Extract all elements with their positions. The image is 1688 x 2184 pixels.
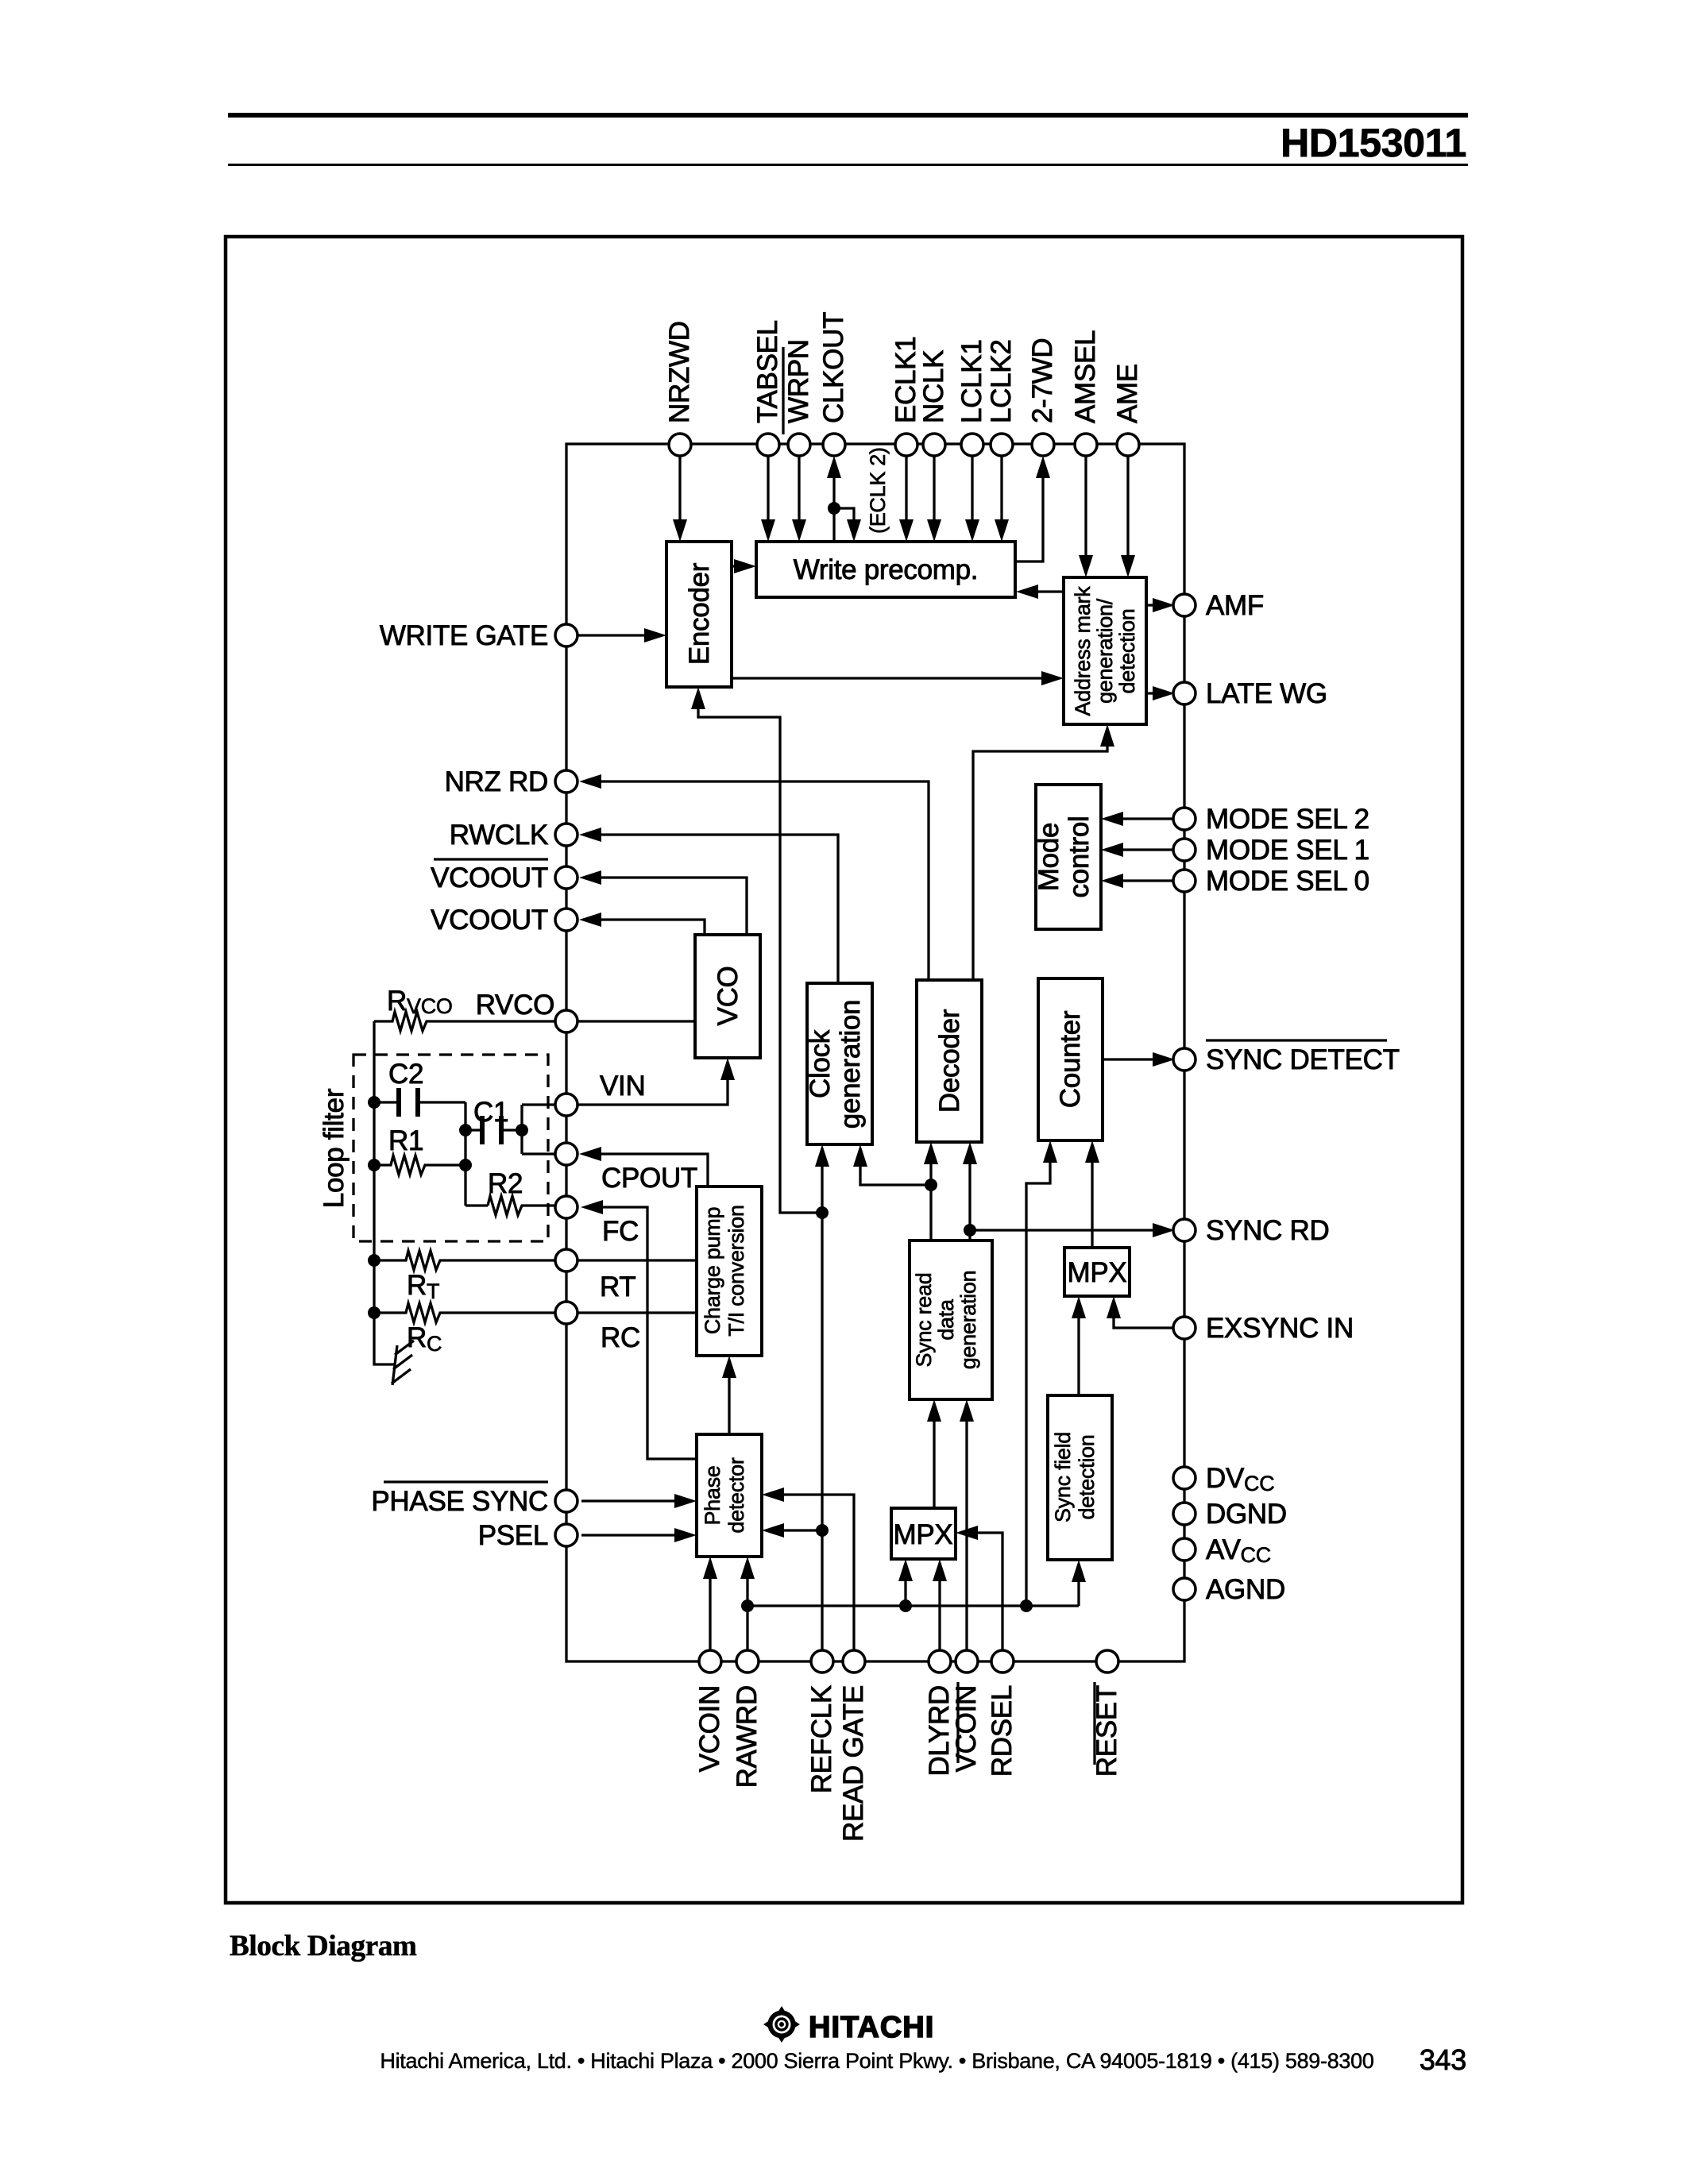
junction C2 left <box>368 1096 380 1109</box>
wire LCLK2 to Write precomp <box>995 445 1009 542</box>
label PHASE SYNC <box>371 1482 548 1517</box>
wire RAWRD to Phase detector <box>740 1557 755 1661</box>
svg-text:LCLK1: LCLK1 <box>956 339 987 423</box>
pin VCOIN-bar <box>956 1650 978 1673</box>
pin SYNC RD <box>1173 1219 1196 1241</box>
block Sync read data generation <box>910 1241 992 1399</box>
pin EXSYNC IN <box>1173 1317 1196 1339</box>
junction REFCLK/Encoder <box>816 1206 829 1219</box>
svg-text:PHASE SYNC: PHASE SYNC <box>371 1486 548 1517</box>
capacitor C2 <box>374 1088 465 1117</box>
wire PSEL to Phase detector <box>581 1528 697 1542</box>
pin NCLK <box>923 434 945 456</box>
pin VCOOUT-bar <box>555 866 577 889</box>
svg-text:CPOUT: CPOUT <box>601 1163 697 1194</box>
wire MPX upper to Counter <box>1085 1140 1099 1248</box>
wire VCO to VCOOUT-bar <box>579 870 747 935</box>
junction R1 left <box>368 1159 380 1171</box>
block MPX upper U1 <box>1064 1248 1130 1296</box>
pin REFCLK <box>811 1650 833 1673</box>
resistor RT <box>374 1251 556 1270</box>
wire Clock generation to RWCLK <box>579 828 838 983</box>
pin PSEL <box>555 1524 577 1546</box>
svg-text:ECLK1: ECLK1 <box>890 337 921 423</box>
wire Decoder to Address mark block <box>973 724 1114 980</box>
wire ECLK2 branch <box>834 508 861 542</box>
pin AVcc <box>1173 1538 1196 1561</box>
wire Address mark to AMF <box>1146 598 1175 612</box>
pin RESET <box>1096 1650 1118 1673</box>
svg-text:LATE WG: LATE WG <box>1206 678 1327 709</box>
pin AMSEL <box>1075 434 1097 456</box>
resistor Rvco <box>374 1012 556 1031</box>
svg-text:PSEL: PSEL <box>478 1520 548 1551</box>
Hitachi logo mark <box>763 2006 800 2043</box>
svg-text:HITACHI: HITACHI <box>809 2011 934 2044</box>
svg-text:WRITE GATE: WRITE GATE <box>380 620 548 651</box>
svg-text:DGND: DGND <box>1206 1499 1287 1530</box>
wire C1 right to VIN and CPOUT <box>520 1105 523 1154</box>
wire MODE SEL 1 to Mode control <box>1101 843 1173 857</box>
junction RT left <box>368 1254 380 1267</box>
block Phase detector <box>697 1434 762 1557</box>
wire REFCLK riser to Clock generation <box>815 1144 829 1661</box>
block MPX lower U2 <box>891 1508 956 1559</box>
wire VCO to VCOOUT <box>579 913 705 935</box>
svg-text:AMF: AMF <box>1206 590 1264 621</box>
pin READ GATE <box>843 1650 865 1673</box>
svg-text:RAWRD: RAWRD <box>732 1685 763 1788</box>
svg-text:RESET: RESET <box>1091 1685 1122 1777</box>
wire MPX lower to Sync read data generation <box>927 1399 941 1508</box>
pin CLKOUT <box>823 434 845 456</box>
wire NRZWD to Encoder <box>673 445 687 542</box>
block Sync field detection <box>1048 1395 1112 1560</box>
svg-text:R1: R1 <box>388 1125 423 1156</box>
wire RC to Charge pump <box>578 1311 697 1314</box>
svg-text:SYNC RD: SYNC RD <box>1206 1215 1329 1246</box>
wire LCLK1 to Write precomp <box>965 445 979 542</box>
wire CPOUT external stub <box>522 1152 556 1155</box>
wire DLYRD to MPX lower <box>933 1559 947 1661</box>
svg-text:generation/: generation/ <box>1093 598 1117 704</box>
junction C1 left <box>459 1124 472 1136</box>
block Charge pump T/I conversion <box>697 1187 762 1356</box>
svg-text:SYNC DETECT: SYNC DETECT <box>1206 1044 1400 1075</box>
svg-text:RVCO: RVCO <box>476 990 554 1021</box>
wire Charge pump to CPOUT <box>579 1147 708 1187</box>
block Clock generation <box>805 983 872 1144</box>
pin LCLK2 <box>991 434 1013 456</box>
svg-text:VCOOUT: VCOOUT <box>431 905 548 936</box>
svg-text:detection: detection <box>1075 1435 1099 1520</box>
wire Sync field detection to MPX upper <box>1072 1296 1086 1395</box>
svg-text:Counter: Counter <box>1055 1010 1086 1108</box>
svg-text:MODE SEL 2: MODE SEL 2 <box>1206 804 1369 835</box>
svg-text:CLKOUT: CLKOUT <box>818 312 849 423</box>
svg-text:Encoder: Encoder <box>684 562 715 665</box>
wire CLKOUT from Write precomp <box>827 456 841 542</box>
wire external ground rail <box>374 1021 395 1364</box>
wire NCLK to Write precomp <box>927 445 941 542</box>
svg-text:Block Diagram: Block Diagram <box>230 1930 417 1962</box>
wire RDSEL to MPX lower <box>956 1526 1002 1661</box>
wire FC to Phase detector <box>581 1200 697 1459</box>
wire VCOIN-bar to Sync read data generation <box>960 1399 974 1661</box>
svg-text:VCOIN: VCOIN <box>951 1685 982 1772</box>
svg-text:Clock: Clock <box>805 1029 836 1098</box>
wire MODE SEL 2 to Mode control <box>1101 812 1173 826</box>
pin RVCO <box>555 1010 577 1032</box>
header thin rule <box>228 164 1468 166</box>
pin AMF <box>1173 594 1196 616</box>
wire PHASE SYNC to Phase detector <box>581 1494 697 1508</box>
resistor RC <box>374 1303 556 1322</box>
svg-text:generation: generation <box>956 1271 980 1370</box>
pin LATE WG <box>1173 682 1196 704</box>
block Counter <box>1038 978 1103 1140</box>
wire Counter to SYNC DETECT <box>1103 1052 1175 1067</box>
pin NRZWD <box>669 434 691 456</box>
svg-text:Decoder: Decoder <box>934 1009 965 1113</box>
resistor R1 <box>374 1156 465 1175</box>
svg-text:detector: detector <box>724 1457 748 1533</box>
svg-text:Address mark: Address mark <box>1071 586 1095 716</box>
outer frame <box>226 237 1462 1903</box>
svg-text:Phase: Phase <box>701 1465 724 1525</box>
overline WRPN <box>782 347 784 434</box>
pin ECLK1 <box>895 434 917 456</box>
wire branch to Clock generation <box>853 1144 931 1185</box>
label SYNC DETECT <box>1206 1040 1400 1075</box>
svg-text:MPX: MPX <box>1068 1257 1127 1288</box>
wire RT to Charge pump <box>578 1259 697 1261</box>
loop filter dashed box <box>353 1055 548 1241</box>
pin VCOIN <box>699 1650 721 1673</box>
svg-text:AMSEL: AMSEL <box>1070 330 1101 423</box>
svg-text:Charge pump: Charge pump <box>701 1207 724 1334</box>
wire AME to Address mark block <box>1121 445 1135 577</box>
svg-text:FC: FC <box>602 1216 639 1247</box>
svg-text:RC: RC <box>601 1322 640 1353</box>
pin DVcc <box>1173 1467 1196 1489</box>
svg-text:Write precomp.: Write precomp. <box>794 554 978 585</box>
pin AGND <box>1173 1578 1196 1600</box>
pin FC <box>555 1196 577 1218</box>
wire Address mark to LATE WG <box>1146 686 1175 700</box>
block VCO <box>695 935 760 1058</box>
svg-text:Mode: Mode <box>1033 823 1064 891</box>
pin SYNC DETECT <box>1173 1048 1196 1071</box>
wire Sync read data generation to Decoder <box>924 1142 938 1241</box>
wire RAWRD horizontal rail <box>747 1604 1079 1607</box>
block Address mark generation/detection <box>1064 577 1146 724</box>
junction Sync read/Clock generation <box>925 1179 937 1191</box>
svg-text:VIN: VIN <box>600 1071 645 1102</box>
svg-text:TABSEL: TABSEL <box>752 320 783 423</box>
label VCOOUT-bar <box>431 859 548 893</box>
pin MODE SEL 2 <box>1173 808 1196 830</box>
wire RVCO to VCO <box>578 1020 695 1022</box>
pin RT <box>555 1249 577 1271</box>
svg-text:RWCLK: RWCLK <box>450 820 548 851</box>
svg-text:EXSYNC IN: EXSYNC IN <box>1206 1313 1354 1344</box>
wire Write precomp to 2-7WD <box>1015 456 1050 561</box>
header thick rule <box>228 113 1468 118</box>
svg-text:NRZWD: NRZWD <box>664 321 695 423</box>
junction Sync read/SYNC RD <box>964 1224 976 1237</box>
wire rail to Sync field detection <box>1072 1560 1086 1606</box>
svg-text:C1: C1 <box>473 1097 508 1128</box>
wire Counter left input riser <box>1026 1140 1057 1606</box>
wire ECLK1 to Write precomp <box>899 445 914 542</box>
wire TABSEL to Write precomp <box>761 445 775 542</box>
svg-text:R2: R2 <box>488 1168 523 1199</box>
capacitor C1 <box>465 1116 522 1144</box>
wire Decoder to NRZ RD <box>579 774 929 980</box>
svg-text:Sync read: Sync read <box>912 1273 936 1368</box>
svg-text:AME: AME <box>1112 364 1143 423</box>
pin VIN <box>555 1094 577 1116</box>
junction CLKOUT branch <box>828 502 840 515</box>
wire Encoder to Write precomp <box>732 559 756 573</box>
junction R1 right <box>459 1159 472 1171</box>
pin NRZ RD <box>555 770 577 793</box>
junction REFCLK/Phase detector <box>816 1524 829 1537</box>
wire branch to SYNC RD <box>970 1223 1175 1237</box>
svg-text:RDSEL: RDSEL <box>987 1685 1018 1777</box>
wire Address mark to Write precomp <box>1016 585 1064 599</box>
svg-text:MODE SEL 0: MODE SEL 0 <box>1206 866 1369 897</box>
wire AMSEL to Address mark block <box>1079 445 1093 577</box>
svg-text:REFCLK: REFCLK <box>806 1685 837 1793</box>
svg-text:LCLK2: LCLK2 <box>986 339 1017 423</box>
svg-text:RT: RT <box>600 1271 635 1302</box>
wire REFCLK branch to Encoder <box>691 687 822 1213</box>
pin VCOOUT <box>555 909 577 931</box>
svg-text:2-7WD: 2-7WD <box>1027 338 1058 423</box>
pin DGND <box>1173 1503 1196 1525</box>
svg-text:HD153011: HD153011 <box>1280 121 1466 165</box>
svg-text:343: 343 <box>1420 2043 1466 2076</box>
resistor R2 <box>465 1196 558 1215</box>
svg-text:C2: C2 <box>388 1059 423 1090</box>
junction RAWRD line/Counter riser <box>1020 1599 1033 1612</box>
svg-text:T/I conversion: T/I conversion <box>724 1205 748 1336</box>
junction rail/MPX lower <box>899 1599 912 1612</box>
svg-text:detection: detection <box>1115 609 1139 694</box>
wire Phase detector to Charge pump <box>722 1356 736 1434</box>
svg-text:VCO: VCO <box>713 967 744 1026</box>
wire MODE SEL 0 to Mode control <box>1101 874 1173 888</box>
svg-text:VCOOUT: VCOOUT <box>431 862 548 893</box>
svg-text:MPX: MPX <box>894 1519 953 1550</box>
wire C2/R1 vertical link <box>464 1102 466 1206</box>
svg-text:control: control <box>1064 816 1095 898</box>
svg-text:MODE SEL 1: MODE SEL 1 <box>1206 835 1369 866</box>
pin 2-7WD <box>1032 434 1054 456</box>
pin PHASE SYNC <box>555 1490 577 1512</box>
svg-text:generation: generation <box>835 1000 866 1129</box>
chip boundary bus <box>566 444 1184 1661</box>
pin RAWRD <box>736 1650 759 1673</box>
svg-text:AGND: AGND <box>1206 1574 1285 1605</box>
pin RWCLK <box>555 824 577 846</box>
block Mode control <box>1033 785 1101 929</box>
svg-text:VCOIN: VCOIN <box>694 1685 725 1772</box>
block Write precomp. <box>756 542 1015 597</box>
wire Encoder to Address mark block <box>732 671 1064 685</box>
wire Sync read data generation to Decoder right <box>963 1142 977 1241</box>
pin RC <box>555 1302 577 1324</box>
wire VCOIN to Phase detector <box>703 1557 717 1661</box>
block Encoder <box>666 542 732 687</box>
pin CPOUT <box>555 1143 577 1165</box>
junction RAWRD rail start <box>741 1599 754 1612</box>
svg-text:NRZ RD: NRZ RD <box>445 766 548 797</box>
pin MODE SEL 0 <box>1173 870 1196 892</box>
pin TABSEL <box>757 434 779 456</box>
pin LCLK1 <box>961 434 983 456</box>
pin MODE SEL 1 <box>1173 839 1196 861</box>
svg-text:Hitachi America, Ltd. • Hitach: Hitachi America, Ltd. • Hitachi Plaza • … <box>380 2049 1373 2073</box>
svg-text:(ECLK 2): (ECLK 2) <box>866 447 890 534</box>
wire REFCLK branch to Phase detector <box>762 1523 822 1538</box>
pin WRITE GATE <box>555 624 577 646</box>
svg-text:data: data <box>934 1298 958 1341</box>
junction RC left <box>368 1306 380 1319</box>
svg-text:Loop filter: Loop filter <box>319 1088 350 1208</box>
wire WRPN to Write precomp <box>792 445 806 542</box>
wire rail to MPX lower left input <box>898 1559 913 1606</box>
junction C1 right <box>516 1124 528 1136</box>
svg-text:NCLK: NCLK <box>918 350 949 423</box>
pin RDSEL <box>991 1650 1014 1673</box>
ground <box>392 1341 414 1385</box>
label VCOIN-bar <box>951 1682 982 1772</box>
pin WRPN <box>788 434 810 456</box>
pin AME <box>1117 434 1139 456</box>
wire WRITE GATE to Encoder <box>577 628 666 642</box>
label RESET <box>1091 1682 1122 1777</box>
svg-text:WRPN: WRPN <box>783 339 814 423</box>
wire EXSYNC IN to MPX upper <box>1107 1296 1173 1328</box>
wire READ GATE to Phase detector <box>762 1488 854 1661</box>
pin DLYRD <box>929 1650 951 1673</box>
svg-text:Sync field: Sync field <box>1051 1432 1075 1522</box>
wire VIN to VCO <box>522 1058 735 1105</box>
block Decoder <box>917 980 982 1142</box>
svg-text:READ GATE: READ GATE <box>838 1685 869 1842</box>
